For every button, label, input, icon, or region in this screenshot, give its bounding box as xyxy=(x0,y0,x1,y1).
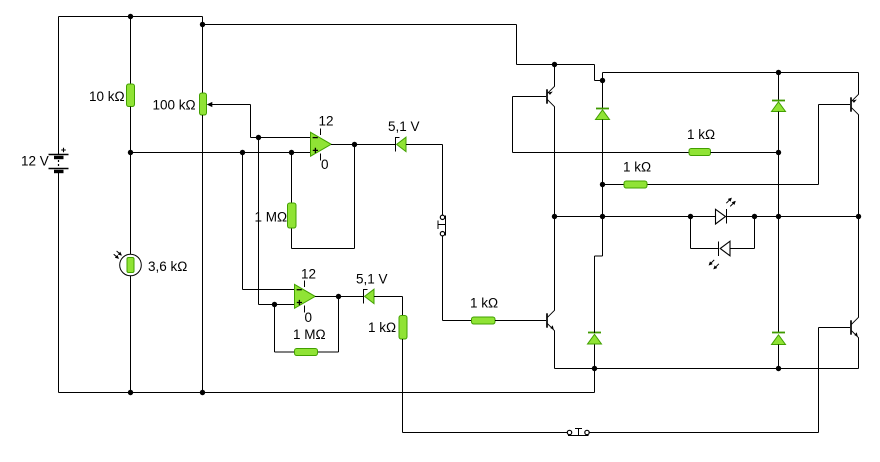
node junction D3 column R5 row xyxy=(600,182,605,187)
wire top rail right y=24.5 xyxy=(203,25,859,95)
transistor Q1 PNP xyxy=(513,86,555,106)
wire Q3 collector down to LED row xyxy=(858,115,860,217)
node junction mid row D5 xyxy=(592,366,597,371)
resistor R3 1 MOhm feedback xyxy=(292,145,355,249)
node junction top rail R1 column xyxy=(128,14,133,19)
battery B1 12 V xyxy=(49,148,69,172)
wire Q1 base column to R4 row xyxy=(513,97,690,153)
wire mid row down to 0V rail xyxy=(594,369,596,393)
svg-text:12 V: 12 V xyxy=(21,154,49,169)
svg-text:1 MΩ: 1 MΩ xyxy=(255,210,288,225)
svg-text:5,1 V: 5,1 V xyxy=(356,272,388,287)
wire Q4 emitter down to mid row xyxy=(858,338,860,369)
svg-text:1 kΩ: 1 kΩ xyxy=(623,160,651,175)
wire LED row y=216.5 xyxy=(555,216,859,218)
node junction LED row D3 column xyxy=(600,214,605,219)
svg-text:0: 0 xyxy=(321,157,329,172)
wire S1 to R6 xyxy=(443,236,472,321)
node junction R4 D4 column xyxy=(776,150,781,155)
LED LED1 xyxy=(716,198,736,224)
node junction D4 top xyxy=(776,70,781,75)
svg-text:0: 0 xyxy=(305,310,313,325)
wire D2 to R7 xyxy=(374,297,403,316)
resistor R4 1 kOhm xyxy=(689,149,711,156)
node junction LED row Q1 collector xyxy=(552,214,557,219)
potentiometer R2 100 kOhm xyxy=(200,93,207,115)
diode D6 xyxy=(772,217,786,369)
node junction U2 plus feedback xyxy=(272,302,277,307)
diode D3 xyxy=(596,81,610,217)
wire divider node line y=152 to op-amp U1 plus input xyxy=(131,152,311,154)
wire U2 plus column x=258 xyxy=(259,138,295,305)
node junction LED row left LED branch xyxy=(688,214,693,219)
diode D4 xyxy=(772,73,786,217)
photoresistor LDR 3,6 kOhm xyxy=(114,251,142,276)
wire D1 to push button S1 xyxy=(406,145,443,216)
wire Q1 collector down to LED row xyxy=(554,107,556,217)
pot wiper arrowhead xyxy=(207,102,213,107)
wire pot column top xyxy=(202,25,204,94)
wire LDR bottom to 0V rail xyxy=(130,276,132,393)
svg-text:1 kΩ: 1 kΩ xyxy=(470,296,498,311)
op-amp U2 xyxy=(295,281,316,313)
wire top rail left y=16 xyxy=(59,17,203,155)
diode D5 xyxy=(588,217,603,369)
svg-text:12: 12 xyxy=(319,114,334,129)
resistor R1 10 kOhm xyxy=(127,84,135,107)
transistor Q3 PNP xyxy=(851,94,859,114)
zener diode D1 5,1 V xyxy=(396,137,407,152)
zener diode D2 5,1 V xyxy=(364,289,375,304)
wire battery bottom to 0V rail xyxy=(59,173,595,393)
resistor R6 1 kOhm xyxy=(472,317,496,324)
wire U1 output xyxy=(331,144,395,146)
wire pot wiper to U1 minus input xyxy=(209,105,311,138)
wire U2 output xyxy=(315,296,363,298)
wire R6 to Q2 base xyxy=(495,320,546,322)
wire S2 to Q4 base xyxy=(589,328,850,433)
wire R4 to D4 column xyxy=(711,152,779,154)
transistor Q2 NPN xyxy=(547,310,555,330)
node junction to R3 feedback column xyxy=(289,150,294,155)
op-amp U1 xyxy=(311,129,332,161)
node junction pot top xyxy=(200,22,205,27)
wire Q2 emitter down to mid row xyxy=(555,331,595,369)
node junction D3 top xyxy=(600,78,605,83)
svg-text:100 kΩ: 100 kΩ xyxy=(153,98,196,113)
svg-text:3,6 kΩ: 3,6 kΩ xyxy=(148,259,187,274)
node junction U2 output feedback xyxy=(336,294,341,299)
node junction mid row D6 xyxy=(776,366,781,371)
wire LED lower branch xyxy=(691,217,755,249)
wire R1 column top xyxy=(130,17,132,85)
node junction to U2 minus column xyxy=(240,150,245,155)
node divider mid junction xyxy=(128,150,133,155)
wire U2 minus column x=242 xyxy=(243,153,295,290)
node junction LED row Q3 collector xyxy=(856,214,861,219)
resistor R8 1 MOhm feedback xyxy=(275,297,339,353)
wire R7 down to bottom line xyxy=(403,339,568,433)
wire R1 bottom to divider node xyxy=(130,107,132,255)
svg-text:10 kΩ: 10 kΩ xyxy=(89,89,125,104)
wire Q4 collector up to LED row xyxy=(858,217,860,318)
wire pot bottom to 0V rail xyxy=(202,115,204,393)
node junction 0V rail pot column xyxy=(200,390,205,395)
node junction Q1 emitter xyxy=(552,62,557,67)
node junction LED row D4 column xyxy=(776,214,781,219)
push button S1 xyxy=(438,215,446,236)
node junction 0V rail LDR column xyxy=(128,390,133,395)
node junction U1 output feedback xyxy=(352,142,357,147)
wire mid row y=368.5 xyxy=(595,368,859,370)
svg-text:5,1 V: 5,1 V xyxy=(388,119,420,134)
wire Q1 emitter up xyxy=(554,65,556,87)
resistor R7 1 kOhm xyxy=(399,316,407,340)
push button S2 xyxy=(567,428,589,435)
node junction wiper line to U2 plus column xyxy=(256,135,261,140)
LED LED2 xyxy=(709,241,730,269)
wire Q2 collector up to LED row xyxy=(554,217,556,311)
node junction LED row right LED branch xyxy=(752,214,757,219)
transistor Q4 NPN xyxy=(851,317,859,337)
svg-text:12: 12 xyxy=(301,267,316,282)
resistor R5 1 kOhm xyxy=(603,105,851,185)
svg-text:1 kΩ: 1 kΩ xyxy=(368,320,396,335)
svg-text:1 kΩ: 1 kΩ xyxy=(687,127,715,142)
svg-text:1 MΩ: 1 MΩ xyxy=(293,327,326,342)
